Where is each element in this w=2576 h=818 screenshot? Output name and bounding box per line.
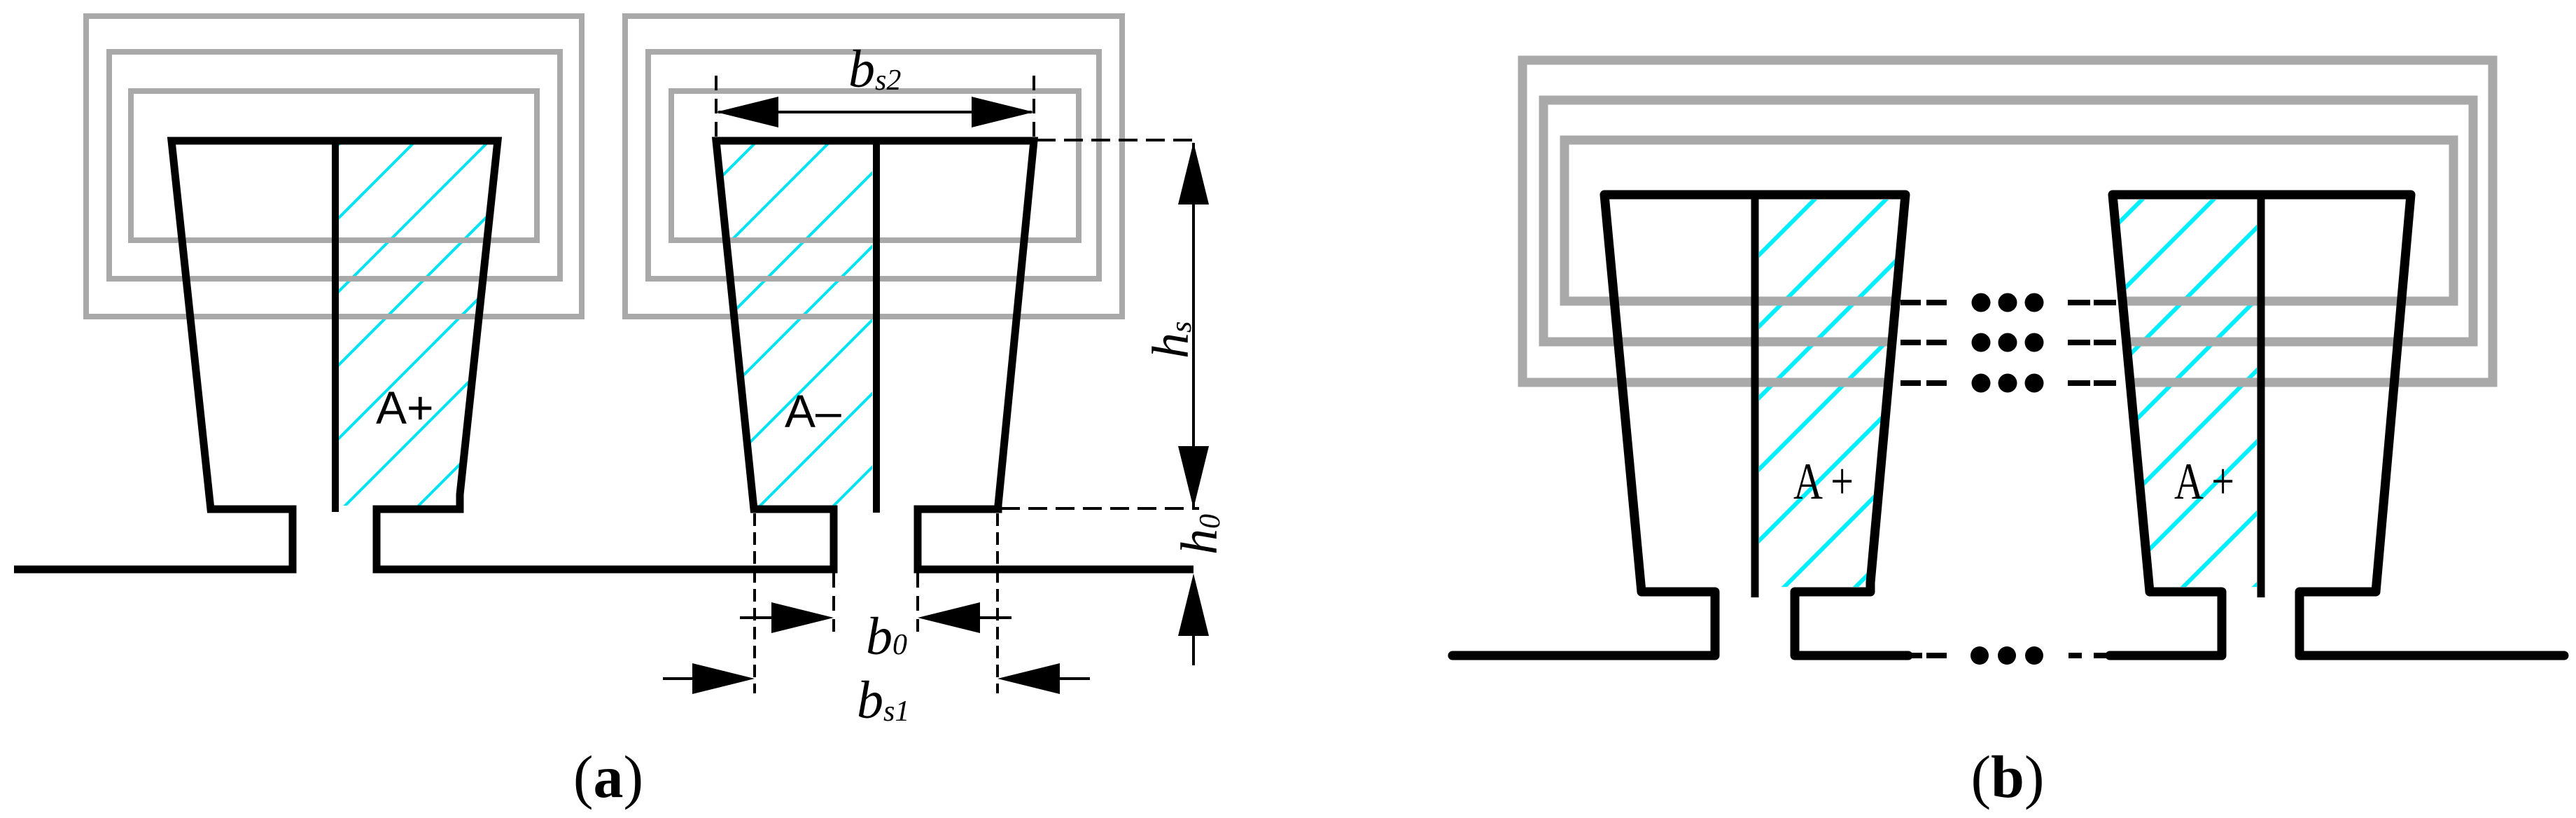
- dimension b_s1 extension line right: [996, 513, 999, 693]
- coil A2 outer turn (fig a): [625, 16, 1122, 317]
- center line right slot (fig b): [2257, 196, 2265, 597]
- coil A1 middle turn (fig a): [109, 52, 560, 279]
- dimension b_0 extension line left: [832, 573, 835, 632]
- dimension b_s2 extension line left: [715, 76, 717, 140]
- continuation dots baseline (fig b): [1970, 646, 2043, 665]
- hatch winding area slot1 A+ (fig a): [0, 126, 798, 522]
- center line slot2 (fig a): [873, 142, 880, 513]
- center line slot1 (fig a): [332, 142, 339, 512]
- hatch winding area left slot A+ (fig b): [1412, 182, 2260, 602]
- svg-text:A +: A +: [1793, 453, 1854, 511]
- coil middle turn (fig b): [1543, 100, 2473, 342]
- dimension b_0 extension line right: [916, 573, 919, 632]
- dimension b_s2 extension line right: [1032, 76, 1035, 140]
- svg-text:(a): (a): [573, 743, 643, 810]
- coil A1 inner turn (fig a): [131, 91, 537, 240]
- dimension b_s1 left arrow: [663, 677, 693, 680]
- svg-text:A–: A–: [785, 385, 841, 437]
- hatch winding area right slot A+ (fig b): [1739, 182, 2576, 602]
- coil A2 inner turn (fig a): [671, 91, 1079, 240]
- dimension h_s arrow line: [1192, 143, 1195, 508]
- dimension b_s1 extension line left: [753, 513, 756, 693]
- svg-text:A+: A+: [376, 382, 434, 434]
- dimension b_0 left arrow: [740, 616, 772, 619]
- dimension b_s2 arrow line: [718, 111, 1032, 113]
- dimension b_s1 right arrow: [1060, 677, 1090, 680]
- coil inner turn (fig b): [1564, 140, 2453, 301]
- dashed line slot top level (fig a): [1037, 139, 1199, 141]
- center line left slot (fig b): [1751, 196, 1759, 597]
- svg-text:(b): (b): [1970, 743, 2044, 810]
- dashed line slot bottom level (fig a): [1001, 507, 1199, 510]
- coil outer turn (fig b): [1522, 60, 2493, 382]
- dimension h_0 arrow below baseline: [1192, 634, 1195, 665]
- hatch winding area slot2 A- (fig a): [377, 126, 1213, 522]
- continuation dashes row1 (fig b): [1900, 300, 2116, 305]
- stator core profile with slot1 and slot2 (fig a): [14, 141, 1193, 569]
- continuation dashes row3 (fig b): [1900, 380, 2116, 386]
- coil A1 outer turn (fig a): [86, 16, 582, 317]
- continuation dots row2 (fig b): [1972, 333, 2044, 352]
- stator core profile right slot (fig b): [2110, 195, 2564, 656]
- continuation dashes baseline (fig b): [1910, 653, 2107, 658]
- stator core profile left slot (fig b): [1452, 195, 1908, 656]
- svg-text:A +: A +: [2174, 453, 2234, 511]
- continuation dots row1 (fig b): [1972, 293, 2044, 312]
- dimension b_0 right arrow: [980, 616, 1011, 619]
- continuation dashes row2 (fig b): [1900, 340, 2116, 345]
- continuation dots row3 (fig b): [1972, 374, 2044, 393]
- coil A2 middle turn (fig a): [648, 52, 1099, 279]
